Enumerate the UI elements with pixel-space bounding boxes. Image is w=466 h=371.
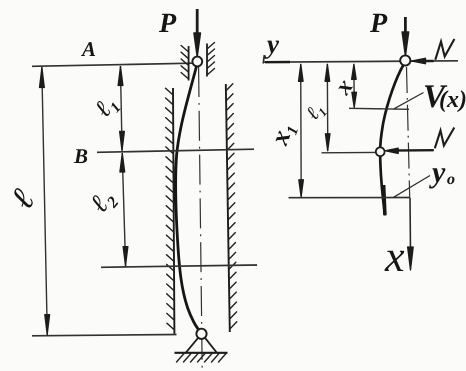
x level extension line xyxy=(349,108,409,109)
label N top xyxy=(435,39,454,60)
label x axis xyxy=(385,251,405,271)
y axis end tick xyxy=(263,55,264,64)
dimension line x1 xyxy=(300,64,303,197)
right wall xyxy=(226,84,230,332)
middle pin joint xyxy=(376,147,385,156)
label l1 right xyxy=(305,102,327,123)
force N arrow top xyxy=(416,60,434,63)
label x dim xyxy=(337,80,353,96)
label l2 xyxy=(89,187,120,217)
force P arrow left xyxy=(196,9,199,40)
label N middle xyxy=(435,128,455,149)
top pin joint xyxy=(192,57,202,67)
label y0 xyxy=(429,168,445,188)
level A extension line xyxy=(32,63,192,66)
support ground hatching xyxy=(177,354,227,363)
label B xyxy=(74,149,87,163)
label l xyxy=(9,187,35,211)
label l1 left xyxy=(93,95,120,122)
label V(x) xyxy=(425,85,447,107)
dimension line x xyxy=(353,64,356,108)
bottom pin joint xyxy=(196,329,206,339)
middle pin level extension line xyxy=(322,151,376,153)
column axis center line right xyxy=(407,67,410,197)
left wall xyxy=(173,88,174,334)
bottom level extension line xyxy=(32,335,177,336)
leader V(x) xyxy=(394,93,424,109)
y axis line xyxy=(263,61,458,62)
label y axis xyxy=(264,41,279,59)
dimension line l1 left xyxy=(120,66,122,151)
force N arrow middle xyxy=(389,149,434,152)
x axis line xyxy=(409,198,412,253)
level B line xyxy=(97,149,254,152)
dimension line l xyxy=(42,67,48,335)
label x1 xyxy=(275,124,298,148)
bottom extension line right xyxy=(289,197,411,199)
top guide wall right xyxy=(206,44,208,77)
label P left xyxy=(159,14,176,32)
top pin joint right xyxy=(400,55,410,65)
label A xyxy=(81,42,95,56)
top guide wall left xyxy=(188,46,190,81)
leader y0 xyxy=(394,176,431,198)
deflected column curve left xyxy=(176,66,200,331)
dimension line l2 xyxy=(122,153,125,266)
support ground line xyxy=(175,352,228,354)
lower level extension line xyxy=(101,265,257,267)
label P right xyxy=(370,14,387,32)
support triangle legs xyxy=(186,338,217,353)
deflected column curve right xyxy=(380,65,403,215)
column axis center line left xyxy=(199,67,203,370)
dimension line l1 right xyxy=(326,64,329,151)
force P arrow right xyxy=(404,17,407,39)
